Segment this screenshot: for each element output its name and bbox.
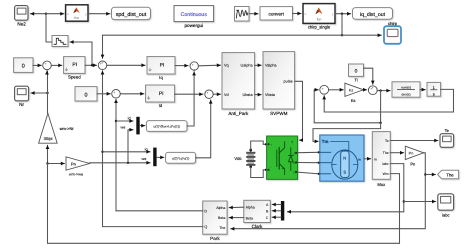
svg-text:The: The [383, 151, 389, 155]
svg-text:C: C [266, 216, 269, 220]
svg-text:Mux: Mux [377, 182, 386, 187]
svg-text:fcn: fcn [74, 16, 79, 20]
svg-text:The: The [219, 226, 225, 230]
svg-text:chirp_single: chirp_single [308, 25, 331, 30]
svg-text:Q: Q [204, 225, 207, 229]
svg-text:-: - [270, 165, 271, 169]
wire iq to mux2 [103, 151, 151, 153]
gain Pn (wm to we) [66, 157, 90, 177]
node junction E (Nr tap) [46, 92, 48, 94]
svg-text:Te: Te [445, 128, 450, 133]
wire vd sum to Anti_Park Vd [213, 93, 220, 95]
subsystem SVPWM [263, 52, 295, 116]
wire iabc to scope iabc [404, 201, 436, 203]
PI controller Speed [64, 57, 85, 80]
wire pulse to bridge gate [295, 81, 303, 140]
wire Park Q output to iq vertical [103, 226, 203, 228]
transfer fcn block [392, 82, 420, 97]
node junction A (scope/fcn feed) [45, 13, 47, 15]
wire TF to integrator [420, 89, 425, 91]
svg-text:Pn: Pn [410, 161, 415, 166]
svg-text:wm->we: wm->we [69, 173, 83, 177]
svg-text:Wm: Wm [383, 172, 389, 176]
wire Ks to torque sum [363, 89, 366, 91]
demux iabc (black bar) [281, 201, 284, 221]
sum (id error) [112, 90, 121, 100]
wire Clark Alpha to Park Alpha [229, 206, 244, 208]
svg-text:Ks: Ks [349, 88, 354, 92]
svg-text:powergui: powergui [184, 23, 203, 28]
gain Ks [345, 83, 364, 103]
constant 0 (speed ref) [14, 58, 33, 73]
wire we up to mux1 [128, 130, 133, 163]
svg-text:Clark: Clark [252, 224, 263, 229]
svg-text:+: + [44, 62, 46, 66]
wire fcn to spd_dist_out [88, 13, 110, 15]
svg-text:iq: iq [145, 147, 148, 151]
svg-text:Ualpha: Ualpha [241, 64, 254, 68]
svg-text:iq_dist_out: iq_dist_out [360, 12, 386, 18]
wire Ubeta to Vbeta [255, 94, 262, 96]
wire PI Id to vd sum [175, 93, 203, 95]
wire mux1 to fcn expr1 [140, 125, 145, 127]
svg-text:30/pi: 30/pi [44, 136, 53, 141]
svg-text:Park: Park [210, 236, 220, 241]
svg-text:-: - [208, 96, 209, 100]
svg-text:num(s): num(s) [401, 85, 411, 89]
wire demux C to Clark C [272, 216, 281, 218]
mux M1 (id,we) [121, 117, 140, 135]
svg-text:s: s [433, 91, 435, 96]
node junction B (chirp output) [341, 13, 343, 15]
svg-text:Vbeta: Vbeta [265, 93, 276, 97]
fcn expression u(2)*Lq*u(1) [166, 152, 196, 163]
wire wm into 30/pi [47, 145, 49, 163]
wire iabc down to demux and scope [287, 164, 403, 212]
wire demux A to Clark A [272, 204, 281, 206]
wire chirp_single to iq_dist_out [335, 13, 351, 15]
wire Pn2 down to The tag and Park theta [231, 153, 425, 229]
scope Ne2 [15, 6, 28, 27]
MATLAB function block chirp_single [303, 4, 335, 30]
node junction M (Tm split) [379, 122, 381, 124]
wire iq sum to PI Iq [107, 64, 145, 66]
DC source Vdc [234, 149, 255, 168]
wire to The tag [425, 174, 435, 176]
svg-text:id: id [128, 117, 131, 121]
svg-text:N: N [343, 155, 346, 160]
svg-text:u(2)*Lq*u(1): u(2)*Lq*u(1) [172, 156, 189, 160]
mux M2 (iq,we) [142, 147, 157, 166]
node junction K (iabc scope tap) [403, 200, 405, 202]
wire Clark Beta to Park Beta [229, 217, 244, 219]
svg-text:u(2)*(flux+Ld*u(1)): u(2)*(flux+Ld*u(1)) [154, 125, 180, 129]
wire PI Speed to iq sum [85, 64, 96, 66]
PMSM machine block (blue) [320, 135, 364, 181]
node junction L (torque tap) [379, 89, 381, 91]
sum (vq decoupling) [190, 62, 198, 72]
svg-text:Alpha: Alpha [246, 205, 255, 209]
constant 0 (id ref) [75, 87, 97, 101]
svg-text:chirp: chirp [388, 21, 398, 26]
wire integrator feedback to est sum bottom [324, 89, 453, 112]
svg-text:D: D [204, 209, 207, 213]
node junction C (chirp split) [341, 34, 343, 36]
wire we from Pn to mux2 (and tap to mux1) [90, 162, 150, 164]
wire Vdc plus to bridge [251, 141, 266, 149]
wire junction to fcn [46, 13, 64, 15]
wire The to gain Pn2 [390, 152, 403, 154]
wire Nr tap into scope Nr [31, 92, 48, 94]
svg-text:we: we [121, 126, 126, 130]
svg-text:PI: PI [159, 91, 164, 97]
svg-text:Ne2: Ne2 [17, 22, 26, 27]
svg-text:Te: Te [385, 139, 389, 143]
wire Ualpha to Valpha [255, 64, 262, 66]
svg-text:Beta: Beta [246, 216, 253, 220]
wire chirp branch down [341, 14, 343, 36]
wire down to motor Tm [313, 123, 381, 142]
svg-text:Ks: Ks [351, 98, 356, 103]
wire vq sum to Anti_Park Vq [198, 64, 220, 67]
svg-text:Tl: Tl [354, 78, 357, 83]
svg-text:wm->Nr: wm->Nr [60, 126, 75, 131]
wire Tl const to torque sum [364, 68, 373, 84]
svg-text:Pn: Pn [409, 152, 414, 156]
subsystem Clark [244, 200, 270, 229]
svg-text:Vq: Vq [224, 64, 229, 68]
wire const0 to speed sum [33, 64, 41, 66]
node junction D (PI speed tap) [91, 64, 93, 66]
node junction H (iq tap to mux2) [101, 151, 103, 153]
wire motor m to mux block [364, 158, 371, 160]
svg-text:A: A [293, 151, 295, 155]
svg-text:Vd: Vd [224, 93, 229, 97]
svg-text:Pn: Pn [71, 161, 76, 166]
sum (torque + Tl) [368, 86, 377, 95]
wire gain 30/pi up to speed sum [46, 71, 49, 113]
svg-text:+: + [372, 86, 374, 90]
svg-text:The: The [446, 172, 454, 177]
svg-text:we: we [142, 157, 147, 161]
wire PI Iq to vq sum [175, 65, 188, 67]
powergui block [174, 6, 214, 29]
svg-text:iabc: iabc [442, 213, 449, 218]
svg-text:spd_dist_out: spd_dist_out [116, 12, 147, 18]
svg-text:convert: convert [269, 11, 285, 16]
measurement demux Mux [372, 132, 390, 188]
node junction F (wm tap to Pn) [46, 162, 48, 164]
svg-text:PI: PI [160, 62, 165, 68]
wire wm to gain Pn [48, 163, 65, 165]
svg-text:Anti_Park: Anti_Park [228, 111, 249, 116]
wire fcn expr2 up to vd sum [196, 100, 211, 158]
svg-text:Valpha: Valpha [265, 64, 277, 68]
wire into scope Ne2 (from junction, flipped input) [31, 13, 46, 15]
integrator 1/s [427, 82, 441, 96]
subsystem Park [203, 201, 227, 241]
svg-text:SVPWM: SVPWM [270, 111, 288, 116]
outport spd_dist_out [112, 7, 151, 19]
wire convert to chirp_single [293, 13, 302, 15]
svg-text:Alpha: Alpha [216, 206, 225, 210]
subsystem Anti_Park [222, 53, 255, 116]
svg-text:Ubeta: Ubeta [242, 93, 253, 97]
svg-text:0: 0 [355, 69, 358, 75]
wire id feedback vertical (Park D up to id sum) [115, 99, 117, 210]
sum (iq ref + disturbance) [98, 61, 107, 71]
constant 0 (load torque Tl) [349, 64, 364, 83]
chirp signal block [235, 7, 250, 22]
svg-text:+: + [102, 61, 104, 65]
outport iq_dist_out [353, 8, 393, 20]
svg-text:PI: PI [72, 62, 77, 68]
svg-text:Vdc: Vdc [234, 156, 241, 161]
scope Te [440, 128, 454, 148]
wire Te to scope Te [390, 140, 438, 142]
MATLAB function block fcn (speed disturbance) [66, 5, 88, 21]
wire chirp to convert [249, 13, 258, 15]
scope iabc [438, 194, 454, 218]
wire bridge B to motor B [298, 162, 319, 164]
svg-text:pulse: pulse [284, 80, 293, 84]
wire mux2 to fcn expr2 [157, 156, 164, 158]
wire const0 id to id sum [97, 93, 110, 95]
wire Park D output to id vertical [116, 210, 203, 212]
svg-text:Id: Id [159, 103, 163, 108]
svg-text:+: + [322, 87, 324, 91]
node junction J (The tag tap) [424, 173, 426, 175]
wire torque tap down to est sum left input [314, 90, 380, 123]
svg-text:Nr: Nr [19, 102, 24, 107]
scope chirp (highlighted) [384, 21, 401, 44]
sum (estimator error) [320, 85, 329, 95]
scope Nr [15, 86, 29, 107]
wire id sum to PI Id [120, 93, 144, 95]
wire bridge C to motor C [298, 172, 319, 174]
svg-text:B: B [293, 161, 295, 165]
wire id to mux1 [116, 120, 133, 122]
svg-text:Speed: Speed [68, 75, 81, 80]
wire Wm feedback (long bottom run) [48, 164, 400, 244]
svg-text:+: + [206, 91, 208, 95]
node junction G (we tap) [127, 162, 129, 164]
gain Pn (angle) [405, 146, 423, 166]
svg-text:S: S [343, 170, 346, 175]
svg-text:+: + [113, 91, 115, 95]
sum (speed error) [43, 61, 52, 71]
svg-text:0: 0 [22, 64, 25, 70]
svg-text:+: + [193, 68, 195, 72]
svg-text:Tm: Tm [322, 139, 329, 144]
wire speed sum to PI Speed [51, 64, 62, 66]
PI controller Iq [147, 57, 175, 80]
wire fcn expr1 up to vq sum [187, 72, 194, 126]
universal bridge (IGBT inverter, green) [267, 136, 298, 179]
svg-text:m: m [374, 157, 377, 161]
PI controller Id [146, 85, 175, 108]
fcn expression u(2)*(flux+Ld*u(1)) [146, 121, 187, 132]
wire iq feedback vertical (Park Q up to iq sum) [102, 71, 104, 227]
wire torque sum to transfer fcn [377, 90, 390, 92]
svg-text:0: 0 [85, 92, 88, 98]
wire into stair block (tap from PI Speed output) [70, 42, 92, 65]
svg-text:+: + [192, 63, 194, 67]
svg-text:fcn: fcn [317, 18, 322, 22]
node junction I (id tap to mux1) [115, 120, 117, 122]
svg-text:+: + [270, 143, 272, 147]
wire demux B to Clark B [272, 210, 281, 212]
convert block (data type conversion) [260, 7, 293, 20]
wire stair block output up to junction A [46, 14, 52, 42]
svg-text:Continuous: Continuous [181, 12, 208, 18]
wire bridge A to motor A [298, 151, 319, 153]
wire est sum to gain Ks [329, 89, 344, 91]
wire Vdc minus to bridge [251, 167, 266, 177]
svg-text:Beta: Beta [218, 216, 225, 220]
svg-text:Iq: Iq [159, 75, 163, 80]
wire chirp branch to chirp scope [342, 34, 381, 36]
gain 30/pi (wm to Nr) [39, 113, 75, 143]
svg-text:den(s): den(s) [401, 92, 410, 96]
rate/stair block (speed disturbance shaper, flipped) [52, 36, 68, 47]
goto tag The [438, 170, 459, 179]
svg-text:iabc: iabc [382, 162, 389, 166]
wire chirp injection to iq sum (long left run) [103, 35, 343, 58]
sum (vd decoupling) [205, 90, 213, 100]
